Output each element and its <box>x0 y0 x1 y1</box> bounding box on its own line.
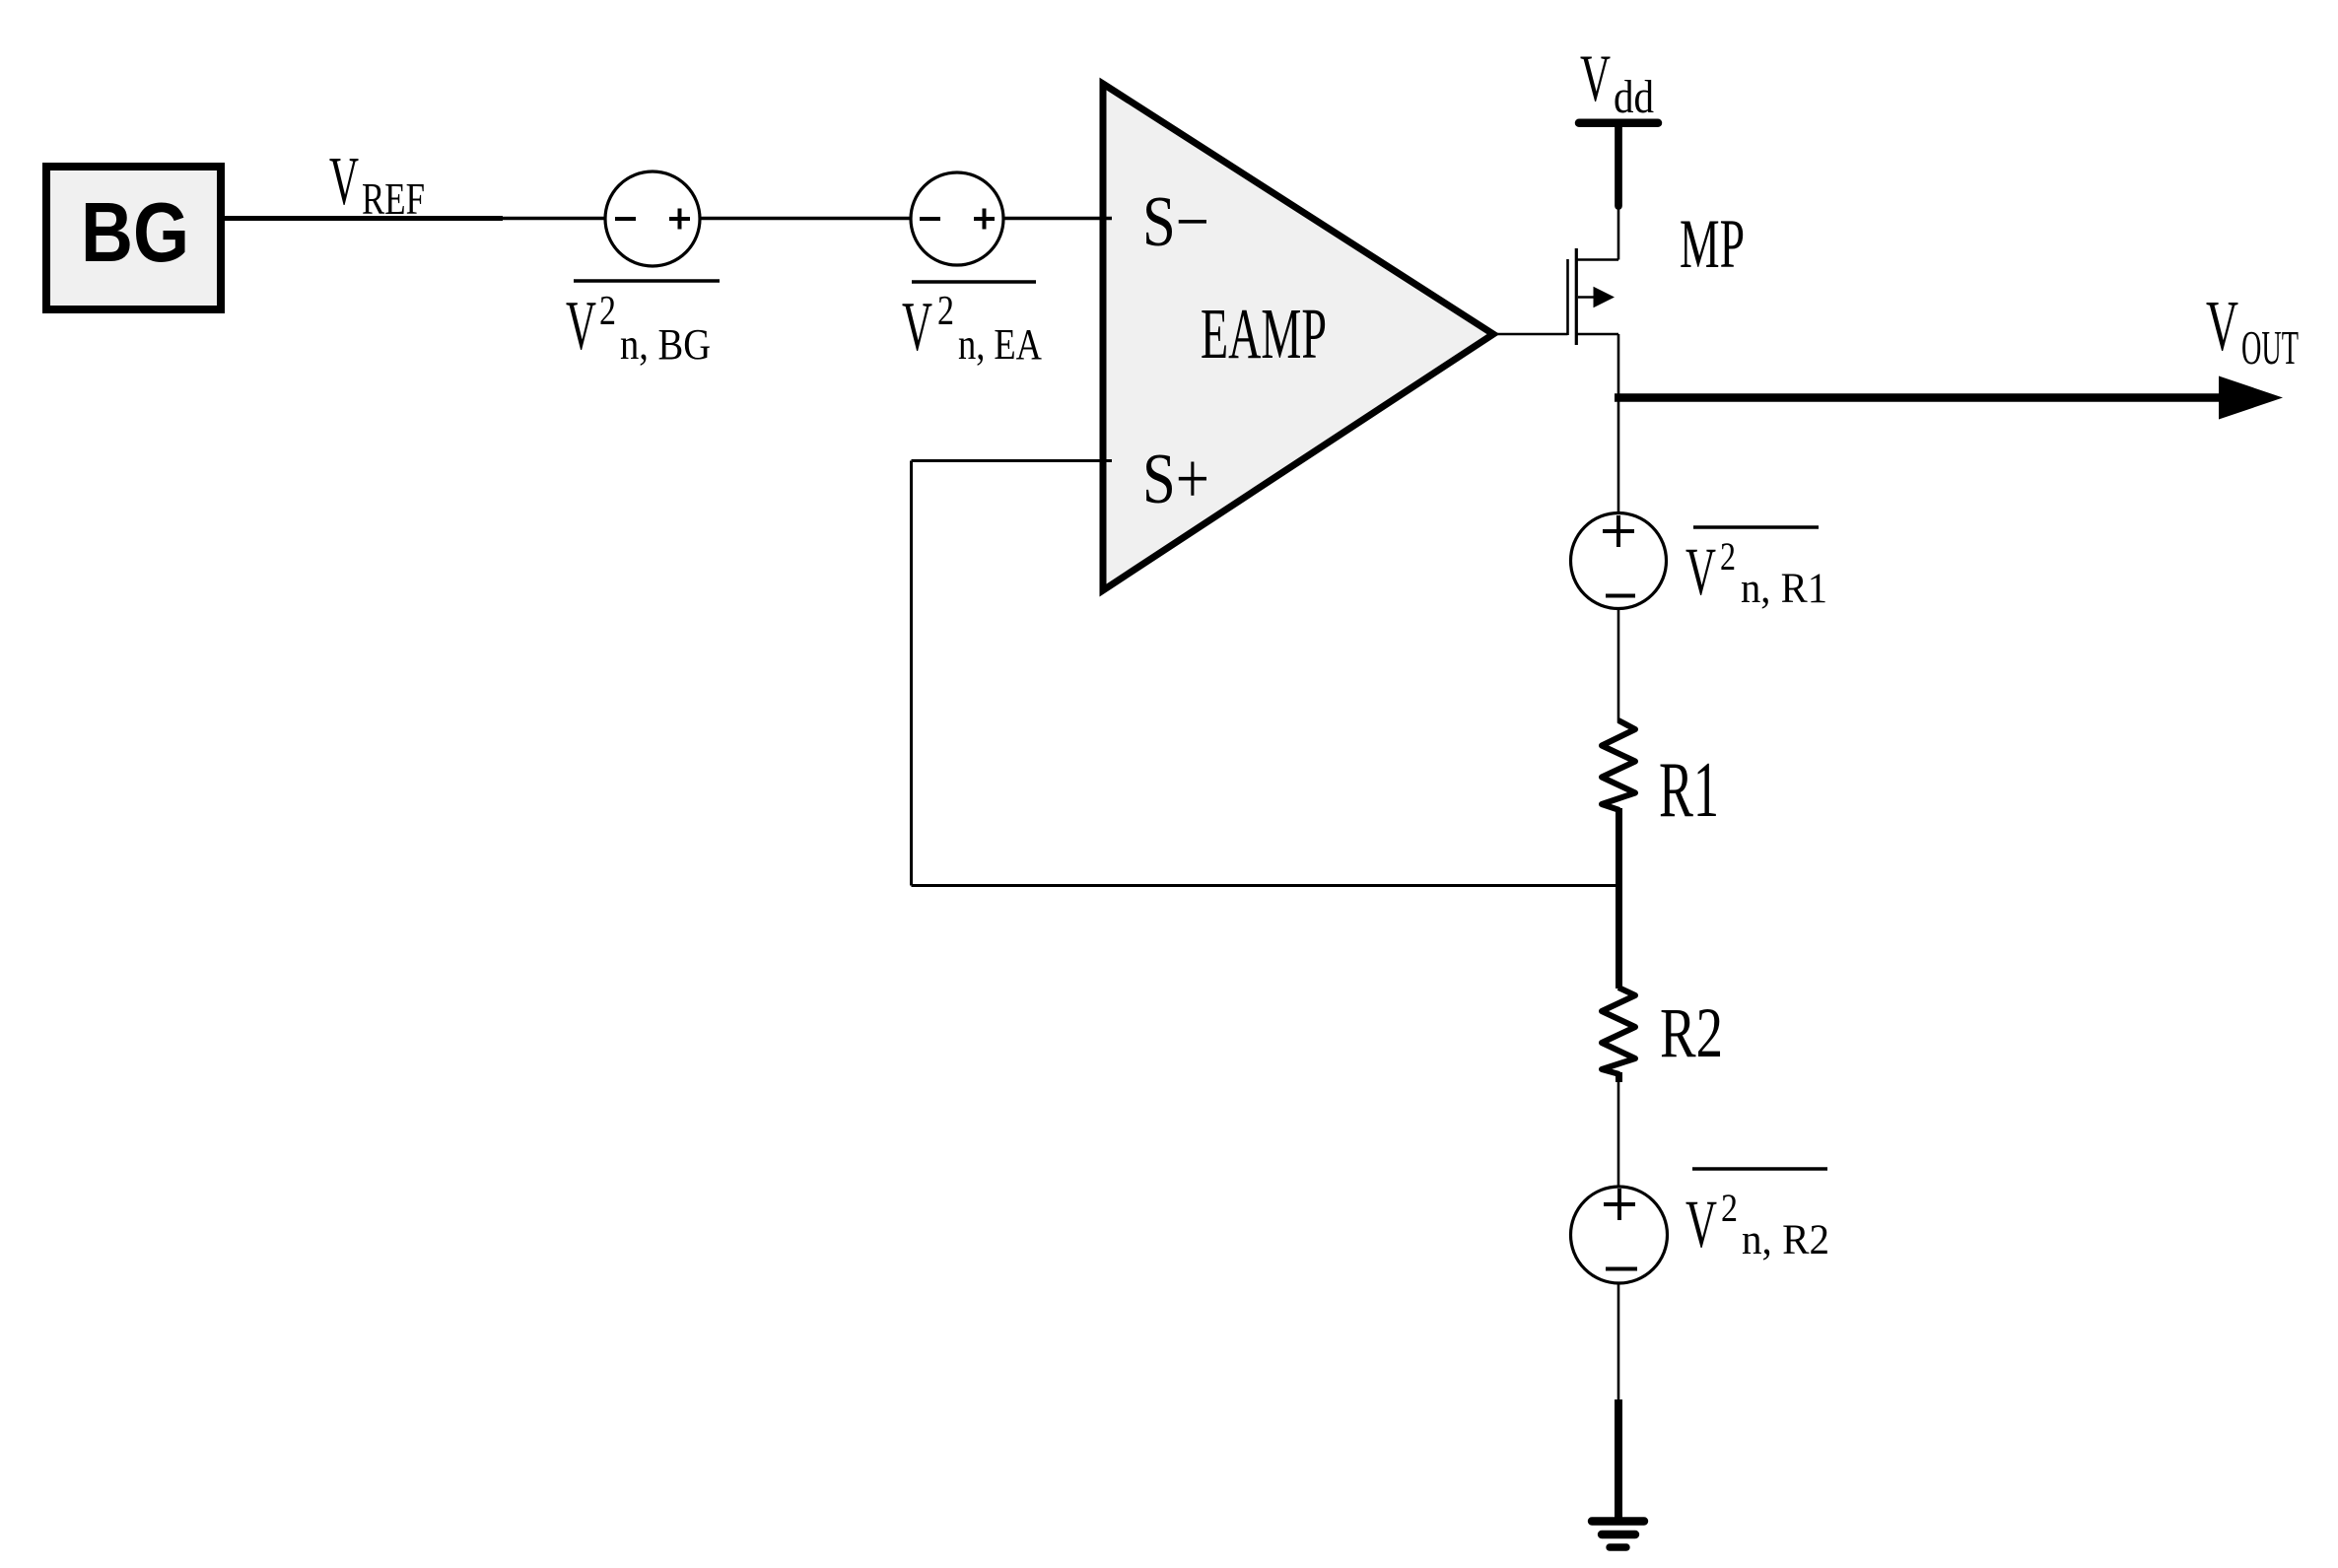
value label Vn,EA with overline <box>912 280 1036 284</box>
wire Vdd to MP source <box>1617 204 1620 260</box>
svg-text:V: V <box>902 289 932 366</box>
svg-text:REF: REF <box>362 173 425 224</box>
svg-text:n, EA: n, EA <box>958 320 1042 369</box>
svg-text:V: V <box>1685 1187 1717 1261</box>
wire op-amp output to MP gate <box>1492 333 1568 336</box>
svg-text:R1: R1 <box>1659 747 1719 834</box>
noise source Vn,R1 <box>1571 513 1667 609</box>
wire output node to noise source Vn,R1 <box>1617 398 1620 515</box>
feedback wire from node to S+ <box>912 884 1619 887</box>
svg-text:dd: dd <box>1614 71 1654 123</box>
wire VREF to noise source <box>498 217 607 220</box>
svg-text:MP: MP <box>1680 206 1745 283</box>
svg-text:V: V <box>566 288 596 365</box>
transistor MP (PMOS) <box>1566 259 1569 335</box>
svg-text:S+: S+ <box>1142 439 1209 518</box>
wire between noise sources <box>700 217 913 220</box>
svg-text:EAMP: EAMP <box>1201 294 1327 374</box>
svg-text:V: V <box>2206 286 2238 366</box>
svg-text:BG: BG <box>81 186 189 280</box>
wire VREF (BG output lead) <box>225 216 503 221</box>
svg-text:2: 2 <box>599 289 616 334</box>
wire noise source to resistor R1 <box>1617 608 1620 722</box>
svg-text:V: V <box>1580 40 1611 115</box>
svg-text:2: 2 <box>1721 1186 1738 1230</box>
wire R2 to noise source Vn,R2 <box>1616 1072 1622 1082</box>
noise source Vn,EA <box>911 172 1003 265</box>
svg-text:V: V <box>1685 534 1716 609</box>
svg-text:n, BG: n, BG <box>620 320 711 369</box>
wire R1 thick lead through feedback node to R2 <box>1616 808 1622 989</box>
value label Vn,R1 with overline <box>1693 525 1819 529</box>
ground symbol <box>1592 1517 1644 1525</box>
wire into S- input <box>1003 217 1112 220</box>
wire noise source Vn,R2 to ground <box>1617 1282 1620 1401</box>
supply Vdd symbol <box>1579 118 1658 127</box>
svg-text:R2: R2 <box>1660 993 1723 1072</box>
svg-text:2: 2 <box>1720 534 1736 579</box>
wire MP drain down to output node <box>1617 334 1620 399</box>
svg-text:n, R2: n, R2 <box>1742 1217 1829 1263</box>
value label Vn,BG with overline <box>574 279 720 283</box>
op-amp U1 EAMP triangle <box>1103 84 1493 590</box>
bandgap block BG <box>46 167 221 309</box>
resistor R2 <box>1602 988 1635 1074</box>
svg-text:S−: S− <box>1142 181 1209 261</box>
svg-text:V: V <box>329 144 359 220</box>
svg-text:2: 2 <box>937 289 954 334</box>
svg-text:n, R1: n, R1 <box>1741 566 1827 612</box>
svg-text:OUT: OUT <box>2241 320 2299 375</box>
output line VOUT with arrow <box>1615 393 2224 402</box>
noise source Vn,R2 <box>1571 1187 1668 1283</box>
resistor R1 <box>1602 720 1635 810</box>
noise source Vn,BG <box>605 171 700 266</box>
value label Vn,R2 with overline <box>1692 1167 1827 1171</box>
